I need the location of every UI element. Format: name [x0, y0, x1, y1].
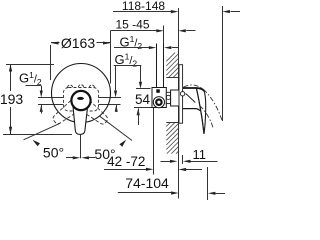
solid lever (down position) — [73, 101, 89, 134]
handle inner detail line — [186, 94, 196, 103]
54 top extension line — [136, 88, 151, 90]
escutcheon circle Ø163 — [52, 64, 111, 123]
74-104 right extension line — [207, 167, 209, 200]
raised handle dash-dot outline lower — [200, 106, 214, 128]
svg-text:74-104: 74-104 — [125, 175, 169, 191]
svg-text:15 -45: 15 -45 — [115, 18, 149, 32]
right 50° arc arrowhead — [119, 140, 126, 147]
handle dome cap — [71, 91, 90, 110]
concealed body (rough-in) — [152, 88, 166, 108]
lower wall hatching — [166, 122, 170, 126]
leader + arrows for pipe G1/2 — [114, 47, 149, 49]
dimension line 118-148 — [113, 11, 171, 13]
inlet union circle — [153, 97, 164, 108]
dashed lever rotated left 50° — [50, 97, 83, 127]
right inlet stub lines — [99, 97, 122, 99]
lower hatch top boundary — [166, 122, 178, 124]
left 50° arc arrowhead — [33, 140, 41, 146]
handle (side view) — [183, 88, 206, 134]
handle grip top accent — [183, 88, 204, 91]
adapter piece — [166, 92, 170, 103]
lever centerline — [80, 134, 82, 158]
dashed lever rotated right 50° — [77, 97, 110, 127]
pivot screw circle — [180, 92, 184, 96]
dimension line 15-45 — [111, 30, 157, 32]
handle grip front edge — [196, 88, 204, 134]
left 50° axis line — [24, 123, 61, 140]
handle arm lower edge — [183, 109, 200, 111]
upper wall hatching — [166, 53, 175, 62]
42-72 right arrow at wall face — [186, 169, 202, 171]
193 bottom extension line — [3, 134, 72, 136]
42-72 left extension line (body back) — [153, 108, 155, 175]
svg-text:11: 11 — [193, 147, 207, 162]
svg-text:193: 193 — [0, 91, 23, 107]
wall face line — [178, 8, 180, 199]
svg-text:54: 54 — [135, 92, 151, 107]
left G1/2 lower arrow — [40, 105, 43, 112]
escutcheon plate (side) — [179, 65, 183, 124]
left inlet stub lines — [38, 97, 64, 99]
left 50° center arrow — [66, 157, 74, 159]
upper hatch bottom boundary — [166, 77, 180, 79]
extension line circle right — [110, 31, 112, 84]
right G1/2 drop arrow to right stub — [115, 66, 117, 91]
193 top extension line — [6, 64, 54, 66]
drop arrow to 54 top extension — [140, 66, 142, 82]
extension line right (raised handle tip) — [222, 6, 224, 121]
svg-text:50°: 50° — [43, 145, 64, 161]
raised handle dash-dot outline upper — [184, 85, 223, 121]
scallop bumps — [68, 85, 73, 88]
right 50° center arrow — [89, 157, 96, 159]
right stub lower arrow — [115, 105, 118, 112]
extension line circle left — [50, 45, 52, 80]
right 50° axis line — [99, 116, 132, 141]
left G1/2 leader — [26, 85, 42, 87]
outlet pipe lines — [156, 44, 158, 88]
svg-text:42 -72: 42 -72 — [107, 154, 145, 169]
193 dimension line — [10, 64, 12, 91]
54 bottom extension line — [134, 107, 155, 109]
stop screw (black square) — [156, 89, 160, 93]
54 bottom arrow — [137, 108, 140, 115]
svg-text:Ø163: Ø163 — [61, 35, 95, 51]
extension line pipe front — [163, 26, 165, 44]
right G1/2 underline leader — [114, 65, 142, 67]
cartridge sleeve through wall — [171, 90, 180, 106]
11 right extension (plate front) — [182, 155, 184, 164]
GROHE logo oval — [77, 97, 84, 100]
dashed rough-in box with scalloped nut — [64, 88, 99, 112]
